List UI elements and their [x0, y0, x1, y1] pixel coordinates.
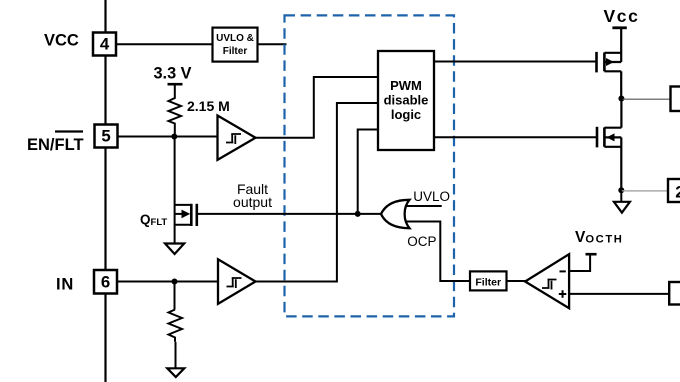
resistor 2.15 M — [169, 96, 230, 137]
svg-text:logic: logic — [391, 107, 421, 122]
wire comparator plus to CS box — [569, 293, 669, 295]
block Filter — [470, 271, 507, 290]
wire to pin 2 box — [621, 190, 668, 192]
wire PWM out top to PMOS gate — [434, 61, 597, 63]
overline on FLT — [55, 130, 83, 132]
transistor PMOS high side — [597, 28, 622, 99]
node OUTL junction — [618, 187, 624, 193]
svg-text:3.3 V: 3.3 V — [154, 65, 192, 83]
wire PWM out bottom to NMOS gate — [434, 136, 597, 138]
transistor QFLT — [140, 204, 197, 228]
svg-text:IN: IN — [56, 276, 74, 294]
node 3.3V supply bar — [154, 65, 192, 97]
wire pin4 to UVLO filter — [116, 43, 213, 45]
wire comparator minus to VOCTH bar — [569, 254, 590, 271]
svg-text:EN/FLT: EN/FLT — [27, 136, 84, 154]
wire filter to comparator — [507, 280, 526, 282]
pin 5 — [95, 125, 118, 148]
pin 4 — [93, 33, 116, 56]
wire fault output line QFLT gate to OR gate — [197, 213, 381, 215]
svg-text:disable: disable — [384, 93, 429, 108]
wire pin6 to IN schmitt — [117, 281, 219, 283]
svg-text:2: 2 — [675, 183, 680, 202]
wire IN schmitt output to PWM logic — [256, 103, 379, 282]
block UVLO & Filter — [213, 28, 258, 62]
svg-text:6: 6 — [101, 273, 110, 292]
ground under QFLT — [165, 225, 184, 254]
wire UVLO input — [406, 205, 442, 207]
pin box OUTH right edge — [671, 87, 680, 112]
wire IC left edge vertical bus — [104, 0, 106, 382]
svg-text:UVLO: UVLO — [413, 189, 450, 204]
wire EN node down to QFLT drain — [174, 137, 176, 226]
ground arrow below IN resistor — [167, 342, 184, 377]
node Vcc supply right — [604, 6, 640, 28]
svg-text:2.15 M: 2.15 M — [187, 98, 230, 114]
op-amp EN schmitt buffer — [218, 116, 256, 160]
svg-text:OCP: OCP — [407, 234, 436, 249]
node IN junction — [172, 279, 178, 285]
pin 2 box right edge — [668, 179, 680, 202]
op-amp OC comparator (points left) — [525, 254, 569, 308]
svg-text:UVLO &: UVLO & — [216, 33, 254, 44]
wire pin5 to EN schmitt — [118, 136, 219, 138]
node EN junction — [171, 134, 177, 140]
svg-text:Filter: Filter — [223, 46, 248, 57]
node OUTH junction — [618, 96, 624, 102]
svg-text:VCC: VCC — [44, 32, 79, 50]
wire OCP input from filter — [406, 222, 470, 282]
pin box CS right edge — [669, 282, 680, 305]
svg-text:output: output — [233, 194, 272, 210]
node VOCTH supply bar — [575, 229, 623, 254]
svg-text:4: 4 — [100, 35, 110, 54]
ground under NMOS — [614, 190, 630, 212]
dashed logic boundary box — [285, 15, 455, 316]
svg-text:Filter: Filter — [475, 277, 501, 289]
wire to OUTH box — [621, 98, 670, 100]
resistor IN pulldown — [169, 282, 183, 342]
wire UVLO filter to dashed box — [258, 43, 287, 45]
svg-text:5: 5 — [101, 127, 110, 146]
wire OUTH node to NMOS drain — [620, 99, 622, 128]
wire fault node up to PWM logic — [358, 130, 378, 214]
or-gate fault OR (points left) — [381, 200, 410, 228]
op-amp IN schmitt buffer — [218, 259, 256, 304]
svg-text:Vcc: Vcc — [604, 6, 640, 26]
transistor NMOS low side — [597, 127, 621, 191]
svg-text:PWM: PWM — [390, 78, 422, 93]
pin 6 — [94, 270, 117, 294]
wire EN schmitt output to PWM logic — [256, 77, 379, 138]
block PWM disable logic — [378, 51, 434, 150]
node fault junction — [355, 211, 361, 217]
